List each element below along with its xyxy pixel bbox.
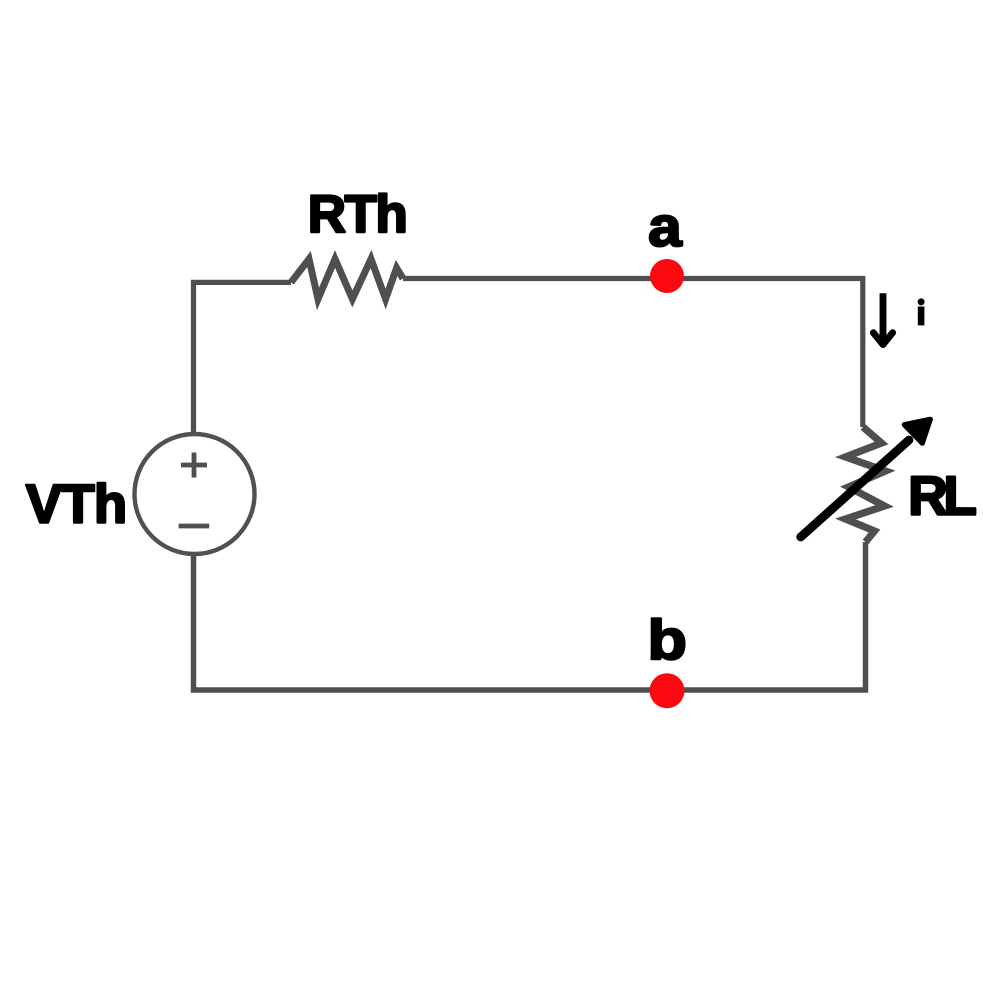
label VTh xyxy=(26,483,124,522)
node b (red dot) xyxy=(650,673,685,708)
plus sign inside source xyxy=(181,453,207,478)
node a (red dot) xyxy=(650,259,684,293)
resistor RL (variable) xyxy=(846,427,886,542)
label a xyxy=(650,216,682,247)
wire bottom: from RL down, along bottom, up left to voltage source bottom xyxy=(194,542,866,690)
label RL xyxy=(912,477,975,515)
label b xyxy=(652,618,685,659)
label RTh xyxy=(311,194,404,232)
resistor RTh xyxy=(291,259,403,299)
voltage source VTh circle xyxy=(135,434,255,554)
RL variable arrow xyxy=(801,440,909,537)
wire top-left: from voltage source top, up left side, along top to resistor RTh xyxy=(194,282,292,434)
minus sign inside source xyxy=(179,524,210,529)
wire top-right: from RTh to top-right corner, down to resistor RL xyxy=(403,279,863,428)
label i xyxy=(918,298,925,305)
current arrow i (down arrow) xyxy=(880,293,887,340)
